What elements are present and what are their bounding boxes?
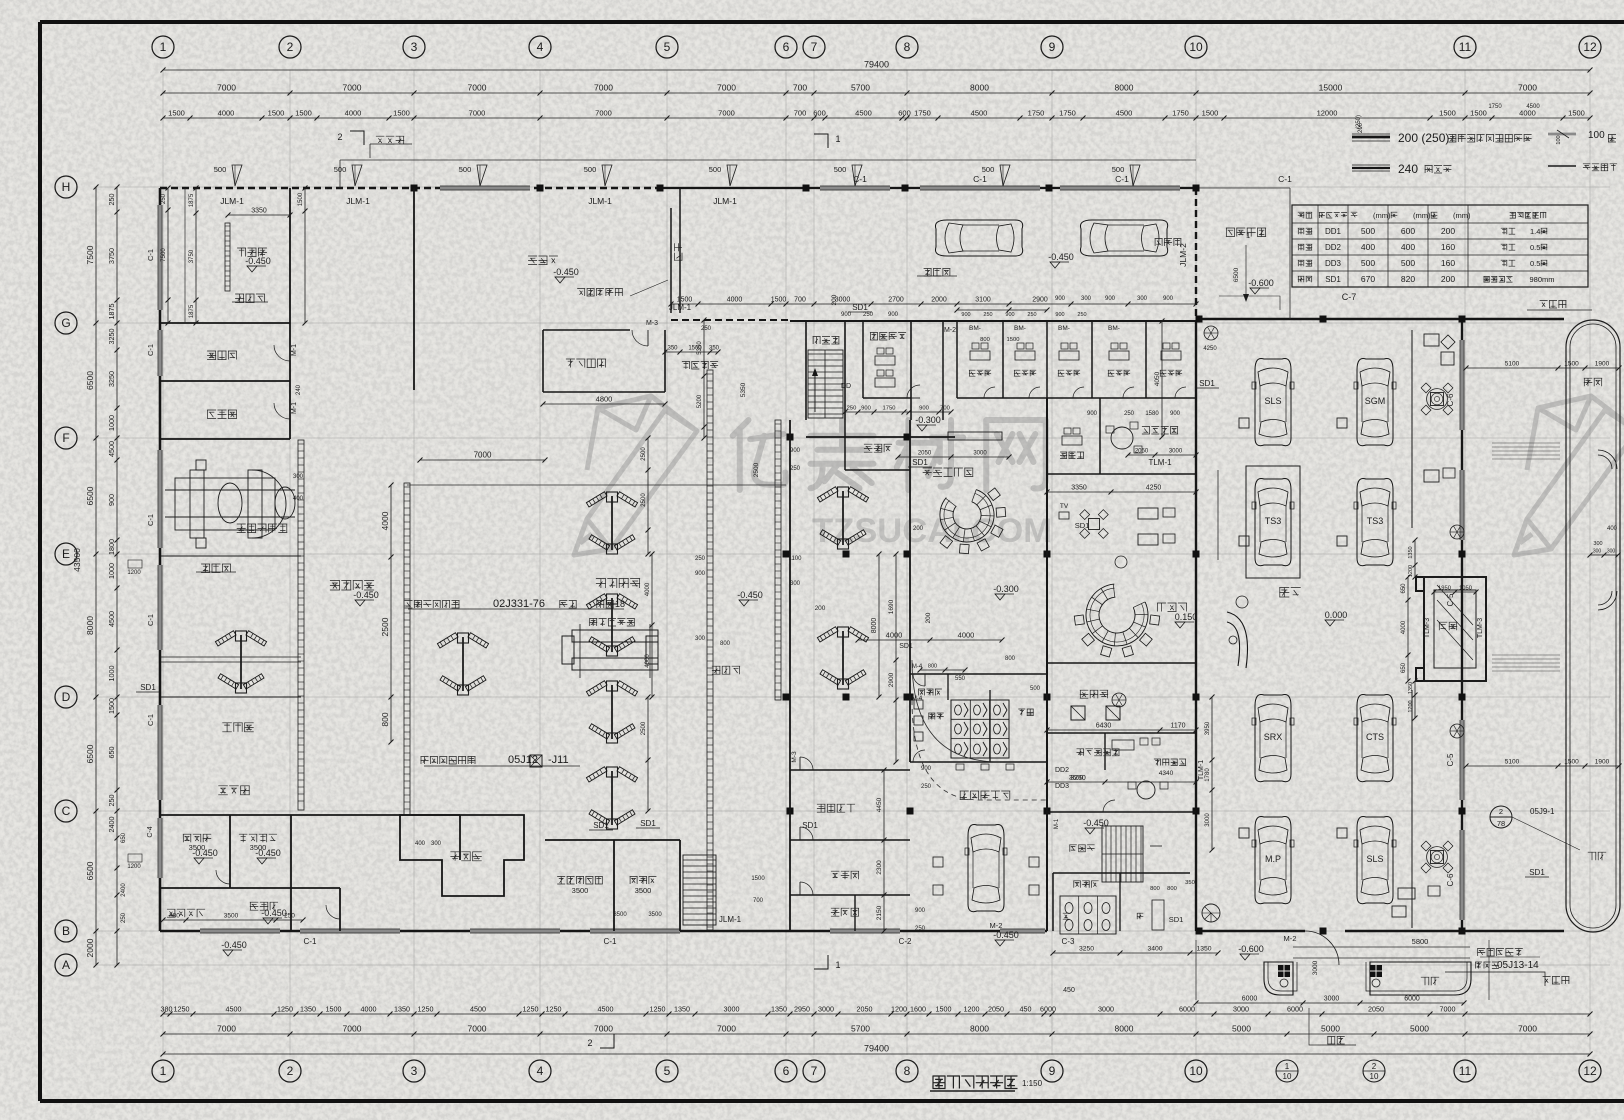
svg-text:1875: 1875 — [107, 304, 116, 320]
left outer wall — [159, 188, 162, 931]
svg-text:3000: 3000 — [1169, 449, 1183, 455]
svg-text:-0.600: -0.600 — [1248, 278, 1274, 288]
svg-text:2000: 2000 — [85, 938, 95, 957]
svg-text:7000: 7000 — [217, 1024, 236, 1034]
reception curved desk — [1227, 612, 1247, 668]
svg-text:10: 10 — [1283, 1072, 1292, 1081]
showroom bottom wall — [1196, 930, 1305, 932]
grid lines vertical — [162, 70, 164, 1055]
top dimension total 79400 — [163, 69, 1590, 71]
svg-text:500: 500 — [1361, 258, 1375, 268]
svg-text:900: 900 — [915, 908, 926, 914]
svg-text:3: 3 — [411, 1064, 418, 1078]
doors M-1 on grid2 wall — [289, 345, 291, 361]
elevator 电梯 TLM-3 — [1416, 577, 1486, 681]
svg-text:2000: 2000 — [931, 297, 947, 304]
svg-text:2400: 2400 — [107, 817, 116, 833]
svg-text:300: 300 — [293, 474, 304, 480]
room labels left column — [237, 248, 267, 257]
svg-text:8000: 8000 — [1115, 83, 1134, 93]
svg-text:600: 600 — [1401, 226, 1415, 236]
svg-text:1200: 1200 — [1408, 700, 1414, 712]
svg-text:9: 9 — [1049, 1064, 1056, 1078]
svg-text:4500: 4500 — [107, 611, 116, 627]
svg-text:9: 9 — [1049, 40, 1056, 54]
svg-text:6000: 6000 — [1287, 1005, 1303, 1014]
svg-text:3250: 3250 — [107, 329, 116, 345]
svg-text:5200: 5200 — [697, 394, 703, 408]
svg-text:300: 300 — [790, 581, 801, 587]
svg-text:250: 250 — [161, 193, 167, 204]
svg-text:500: 500 — [334, 165, 347, 174]
svg-text:250: 250 — [847, 406, 857, 412]
svg-text:6: 6 — [783, 40, 790, 54]
wall grid3 upper — [413, 188, 415, 390]
svg-text:400: 400 — [1401, 242, 1415, 252]
svg-text:300: 300 — [1593, 541, 1602, 547]
svg-text:JLM-1: JLM-1 — [719, 915, 742, 924]
svg-text:200: 200 — [925, 612, 932, 623]
svg-text:3400: 3400 — [1147, 946, 1162, 953]
svg-text:M-2: M-2 — [1284, 934, 1297, 943]
entrance steps bottom — [1293, 946, 1470, 948]
svg-text:1580: 1580 — [1145, 411, 1159, 417]
svg-text:4340: 4340 — [1159, 770, 1174, 777]
svg-text:200 (250): 200 (250) — [1398, 131, 1449, 145]
detail bubble 2/78 — [1490, 806, 1512, 828]
svg-text:C-7: C-7 — [1342, 292, 1357, 302]
svg-text:C-1: C-1 — [146, 514, 155, 526]
svg-text:BM-: BM- — [1058, 325, 1070, 332]
svg-text:C-4: C-4 — [147, 826, 154, 837]
svg-text:2050: 2050 — [857, 1005, 873, 1014]
svg-text:600: 600 — [898, 109, 911, 118]
svg-text:500: 500 — [709, 165, 722, 174]
svg-text:JLM-1: JLM-1 — [713, 196, 737, 206]
showroom left wall grid 10 — [1195, 321, 1197, 931]
svg-text:1500: 1500 — [107, 698, 116, 714]
svg-text:8000: 8000 — [970, 1024, 989, 1034]
svg-text:-0.450: -0.450 — [353, 590, 379, 600]
svg-text:-0.450: -0.450 — [245, 256, 271, 266]
svg-text:12: 12 — [1583, 1064, 1597, 1078]
svg-text:5000: 5000 — [1232, 1024, 1251, 1034]
stair 1#楼梯 — [805, 321, 807, 420]
parts warehouse 配件库 — [528, 256, 558, 265]
svg-text:1750: 1750 — [1059, 109, 1076, 118]
svg-text:TV: TV — [1060, 503, 1069, 510]
showroom right wall grid 11 — [1461, 319, 1463, 931]
car M.P — [1252, 816, 1294, 903]
svg-text:300: 300 — [695, 636, 706, 642]
svg-text:SD1: SD1 — [1325, 275, 1341, 284]
svg-text:78: 78 — [1497, 819, 1505, 828]
top wall JLM-1 dashed section grids 1-3 — [160, 187, 660, 189]
svg-text:2500: 2500 — [380, 617, 390, 636]
svg-text:SD1: SD1 — [899, 643, 913, 650]
thin divider lines left rooms — [160, 555, 301, 557]
svg-text:1750: 1750 — [883, 406, 896, 412]
svg-text:M-3: M-3 — [791, 751, 798, 763]
svg-text:-0.450: -0.450 — [192, 848, 218, 858]
svg-text:1500: 1500 — [771, 297, 787, 304]
svg-text:0.000: 0.000 — [1325, 610, 1348, 620]
svg-text:670: 670 — [1361, 274, 1375, 284]
svg-text:4: 4 — [537, 40, 544, 54]
svg-text:4000: 4000 — [645, 654, 651, 668]
svg-text:4000: 4000 — [958, 631, 975, 640]
spiral stair bottom-left showroom — [1202, 904, 1220, 922]
showroom top wall (grid10-11 right) row C-7 — [1196, 318, 1564, 321]
svg-text:SD1: SD1 — [912, 458, 928, 467]
car SLS — [1354, 816, 1396, 903]
car in wash delivery bay — [965, 824, 1007, 911]
room right of stairs — [911, 320, 943, 322]
svg-text:200: 200 — [815, 605, 826, 612]
svg-text:DD2: DD2 — [1055, 767, 1069, 774]
svg-text:7000: 7000 — [468, 1024, 487, 1034]
sinks left of stalls — [914, 700, 923, 709]
svg-text:3100: 3100 — [975, 297, 991, 304]
svg-text:1750: 1750 — [1488, 104, 1502, 110]
svg-text:4500: 4500 — [598, 1005, 614, 1014]
svg-text:C-1: C-1 — [146, 714, 155, 726]
svg-text:10: 10 — [1189, 40, 1203, 54]
wash delivery area 洗车交车区 — [960, 791, 1011, 800]
lunch room 员工休息室 — [545, 839, 680, 841]
svg-text:1: 1 — [835, 134, 840, 144]
equipment control room 设备控制间 — [1047, 732, 1196, 734]
svg-text:800: 800 — [928, 664, 937, 670]
svg-text:DD3: DD3 — [1325, 259, 1342, 268]
svg-text:2900: 2900 — [888, 672, 895, 687]
svg-text:1500: 1500 — [393, 109, 410, 118]
svg-text:6000: 6000 — [1404, 996, 1420, 1003]
stall block — [951, 700, 1009, 758]
svg-text:2700: 2700 — [888, 297, 904, 304]
svg-text:3000: 3000 — [724, 1005, 740, 1014]
dims near grid 9-10 top — [957, 309, 1047, 311]
svg-text:15000: 15000 — [1319, 83, 1343, 93]
svg-text:240: 240 — [1398, 162, 1418, 176]
svg-text:5800: 5800 — [1412, 937, 1429, 946]
svg-text:200: 200 — [1358, 122, 1364, 133]
svg-text:450: 450 — [1063, 987, 1075, 994]
svg-text:100: 100 — [1556, 135, 1562, 144]
svg-text:M-3: M-3 — [646, 320, 658, 327]
svg-text:SD1: SD1 — [593, 821, 609, 830]
svg-text:7500: 7500 — [85, 245, 95, 264]
svg-text:1500: 1500 — [1202, 109, 1219, 118]
lounge divider wall — [1047, 662, 1196, 664]
svg-text:TLM-3: TLM-3 — [1424, 618, 1431, 638]
svg-text:4500: 4500 — [1116, 109, 1133, 118]
svg-text:1780: 1780 — [1205, 768, 1211, 782]
level mark parts warehouse — [555, 277, 565, 283]
svg-text:2: 2 — [287, 1064, 294, 1078]
svg-text:-0.300: -0.300 — [993, 584, 1019, 594]
svg-text:3000: 3000 — [973, 451, 987, 457]
svg-text:5100: 5100 — [1505, 361, 1520, 368]
svg-text:900: 900 — [695, 571, 706, 577]
svg-text:650: 650 — [1401, 583, 1407, 594]
svg-text:-0.450: -0.450 — [993, 930, 1019, 940]
drain note 排水沟做法见02J331-76页-图18 — [405, 601, 460, 609]
svg-text:1690: 1690 — [888, 599, 895, 614]
svg-text:1500: 1500 — [1007, 337, 1020, 343]
paint booth 烤漆房 — [400, 815, 524, 896]
svg-text:1: 1 — [1246, 231, 1250, 240]
sofas right lounge — [1138, 508, 1158, 519]
svg-text:7000: 7000 — [217, 83, 236, 93]
section mark 2 left — [350, 131, 364, 145]
svg-text:900: 900 — [1170, 411, 1181, 417]
svg-text:2500: 2500 — [641, 721, 647, 735]
svg-text:6000: 6000 — [1040, 1005, 1056, 1014]
svg-text:200: 200 — [1441, 274, 1455, 284]
svg-text:1500: 1500 — [1439, 109, 1456, 118]
svg-text:100: 100 — [1588, 130, 1605, 141]
bottom right toilets — [1052, 873, 1054, 931]
svg-text:3: 3 — [411, 40, 418, 54]
steps 步台阶 left — [201, 564, 231, 573]
top dimension details — [163, 117, 1590, 119]
svg-text:JLM-1: JLM-1 — [220, 196, 244, 206]
svg-text:1350: 1350 — [1408, 682, 1414, 694]
svg-text:C-6: C-6 — [1446, 873, 1455, 886]
svg-text:7000: 7000 — [717, 83, 736, 93]
svg-text:BM-: BM- — [1108, 325, 1120, 332]
svg-text:DD: DD — [841, 383, 851, 390]
washing strip symbol — [225, 223, 230, 291]
svg-text:2050: 2050 — [1135, 449, 1149, 455]
svg-text:C-2: C-2 — [899, 937, 912, 946]
svg-text:240: 240 — [296, 384, 302, 395]
svg-text:7000: 7000 — [718, 109, 735, 118]
svg-text:1350: 1350 — [1408, 546, 1414, 558]
svg-text:6500: 6500 — [85, 861, 95, 880]
svg-text:3000: 3000 — [1312, 960, 1319, 975]
svg-text:11: 11 — [1459, 40, 1472, 54]
svg-text:SD1: SD1 — [140, 683, 156, 692]
svg-text:TLM-3: TLM-3 — [1477, 618, 1484, 638]
svg-text:1875: 1875 — [189, 193, 195, 207]
svg-text:900: 900 — [790, 448, 801, 454]
svg-text:7: 7 — [811, 1064, 818, 1078]
svg-text:12000: 12000 — [1317, 109, 1338, 118]
svg-text:500: 500 — [214, 165, 227, 174]
svg-text:1500: 1500 — [1568, 109, 1585, 118]
svg-text:1500: 1500 — [295, 109, 312, 118]
svg-text:250: 250 — [121, 912, 127, 923]
svg-text:800: 800 — [720, 641, 731, 647]
svg-text:250: 250 — [1077, 312, 1086, 318]
svg-text:CTS: CTS — [1366, 732, 1384, 742]
svg-text:500: 500 — [1112, 165, 1125, 174]
svg-text:250: 250 — [701, 326, 712, 332]
svg-text:1875: 1875 — [189, 304, 195, 318]
car SGM — [1354, 358, 1396, 445]
svg-text:79400: 79400 — [864, 1044, 889, 1054]
svg-text:900: 900 — [919, 406, 929, 412]
svg-text:200: 200 — [831, 294, 838, 305]
svg-text:250: 250 — [863, 312, 874, 318]
svg-text:3500: 3500 — [635, 886, 652, 895]
svg-text:800: 800 — [1167, 886, 1177, 892]
svg-text:6430: 6430 — [1096, 723, 1112, 730]
svg-text:0.5: 0.5 — [1530, 259, 1540, 268]
svg-text:350: 350 — [667, 346, 678, 352]
svg-text:7000: 7000 — [469, 109, 486, 118]
svg-text:-0.450: -0.450 — [255, 848, 281, 858]
svg-text:1500: 1500 — [168, 109, 185, 118]
svg-text:2: 2 — [337, 132, 342, 142]
svg-text:SD1: SD1 — [1199, 379, 1215, 388]
axis bubbles left — [55, 176, 77, 198]
svg-text:1000: 1000 — [107, 666, 116, 682]
watermark center — [574, 396, 1052, 555]
svg-text:4000: 4000 — [345, 109, 362, 118]
svg-text:M-1: M-1 — [291, 344, 298, 356]
svg-text:-0.450: -0.450 — [261, 908, 287, 918]
svg-text:1600: 1600 — [910, 1005, 926, 1014]
svg-text:D: D — [62, 690, 71, 704]
mop sink note 拖布池做法见05J12-J11 — [421, 757, 476, 765]
svg-text:900: 900 — [841, 312, 852, 318]
svg-text:500: 500 — [459, 165, 472, 174]
svg-text:4500: 4500 — [971, 109, 988, 118]
svg-text:200: 200 — [913, 526, 924, 532]
svg-text:M-1: M-1 — [291, 402, 298, 414]
mid vertical walls — [909, 420, 911, 762]
svg-text:DD1: DD1 — [1325, 227, 1342, 236]
svg-text:1500: 1500 — [936, 1005, 952, 1014]
drain strips — [298, 440, 304, 810]
svg-text:(mm): (mm) — [1373, 211, 1391, 220]
svg-text:300: 300 — [431, 841, 442, 847]
consult offices 客服室 row — [956, 321, 958, 398]
svg-text:SD1: SD1 — [1075, 521, 1090, 530]
svg-text:500: 500 — [1401, 258, 1415, 268]
svg-text:5700: 5700 — [851, 1024, 870, 1034]
svg-text:1250: 1250 — [523, 1005, 539, 1014]
svg-text:250: 250 — [1027, 312, 1036, 318]
svg-text:4800: 4800 — [596, 395, 613, 404]
svg-text:800: 800 — [380, 712, 390, 726]
svg-text:250: 250 — [1124, 411, 1135, 417]
svg-text:C-1: C-1 — [304, 937, 317, 946]
svg-text:8: 8 — [904, 40, 911, 54]
svg-text:550: 550 — [955, 676, 966, 682]
customer rest area 顾客休息区 — [923, 468, 974, 477]
car lifts (scissor X symbols) — [215, 631, 266, 693]
svg-text:JLM-1: JLM-1 — [588, 196, 612, 206]
svg-text:2500: 2500 — [641, 493, 647, 507]
showroom label 展厅 ±0.000 — [1279, 588, 1300, 598]
svg-text:E: E — [62, 547, 70, 561]
grid lines horizontal — [96, 186, 1610, 188]
svg-text:4450: 4450 — [876, 797, 883, 812]
svg-text:1500: 1500 — [1470, 109, 1487, 118]
svg-text:1750: 1750 — [914, 109, 931, 118]
svg-text:4500: 4500 — [107, 441, 116, 457]
svg-text:02J331-76: 02J331-76 — [493, 598, 545, 610]
svg-text:G: G — [61, 316, 70, 330]
svg-text:700: 700 — [794, 297, 806, 304]
car CTS — [1354, 694, 1396, 781]
bottom dimension details — [163, 1013, 1590, 1015]
svg-text:160: 160 — [1441, 258, 1455, 268]
svg-text:-0.450: -0.450 — [553, 267, 579, 277]
svg-text:05J13-14: 05J13-14 — [1497, 960, 1539, 971]
svg-text:DD2: DD2 — [1325, 243, 1342, 252]
watermark right clipped — [1514, 396, 1624, 555]
svg-text:-J11: -J11 — [548, 754, 569, 766]
frame machine 大梁校正仪 — [165, 460, 295, 548]
svg-text:250: 250 — [921, 784, 932, 790]
svg-text:TS3: TS3 — [1265, 516, 1282, 526]
sales office with round table TLM-1 — [1047, 473, 1196, 475]
svg-text:7000: 7000 — [594, 1024, 613, 1034]
svg-text:800: 800 — [1150, 886, 1160, 892]
svg-text:650: 650 — [107, 747, 116, 759]
svg-text:7000: 7000 — [595, 109, 612, 118]
svg-text:JLM-2: JLM-2 — [1178, 243, 1188, 267]
svg-text:M.P: M.P — [1265, 854, 1281, 864]
svg-text:2950: 2950 — [794, 1005, 810, 1014]
left dimension spans — [95, 187, 97, 965]
toilets middle — [910, 673, 1047, 675]
svg-text:900: 900 — [921, 766, 932, 772]
svg-text:900: 900 — [1105, 296, 1116, 302]
svg-text:4500: 4500 — [226, 1005, 242, 1014]
svg-text:5100: 5100 — [1505, 759, 1520, 766]
svg-text:BM-: BM- — [1014, 325, 1026, 332]
svg-text:1050: 1050 — [1459, 586, 1472, 592]
svg-text:250: 250 — [915, 926, 926, 932]
svg-text:1350: 1350 — [300, 1005, 316, 1014]
svg-text:4000: 4000 — [380, 511, 390, 530]
M-2 entrance bottom — [1305, 931, 1339, 965]
svg-text:1500: 1500 — [751, 876, 765, 882]
svg-text:400: 400 — [1361, 242, 1375, 252]
pool 水池 right strip — [1566, 320, 1620, 932]
svg-text:250: 250 — [695, 556, 706, 562]
svg-text:3750: 3750 — [107, 248, 116, 264]
svg-text:1750: 1750 — [1028, 109, 1045, 118]
文印区 — [1080, 690, 1108, 698]
svg-text:(mm): (mm) — [1413, 211, 1431, 220]
svg-text:C-3: C-3 — [1062, 937, 1075, 946]
svg-text:1250: 1250 — [650, 1005, 666, 1014]
car TS3 — [1252, 478, 1294, 565]
svg-text:1:150: 1:150 — [1022, 1079, 1043, 1088]
svg-text:SGM: SGM — [1365, 396, 1386, 406]
scattered small dims top-left room — [195, 188, 197, 323]
svg-text:1250: 1250 — [418, 1005, 434, 1014]
svg-text:380: 380 — [161, 1005, 173, 1014]
svg-text:6000: 6000 — [1179, 1005, 1195, 1014]
car TS3 — [1354, 478, 1396, 565]
svg-text:8: 8 — [904, 1064, 911, 1078]
svg-text:200: 200 — [1441, 226, 1455, 236]
svg-text:0.5: 0.5 — [1530, 243, 1540, 252]
svg-text:7500: 7500 — [161, 248, 167, 262]
svg-text:05J9-1: 05J9-1 — [1530, 807, 1555, 816]
svg-text:1250: 1250 — [546, 1005, 562, 1014]
axis bubbles bottom — [152, 1060, 174, 1082]
svg-text:3000: 3000 — [818, 1005, 834, 1014]
